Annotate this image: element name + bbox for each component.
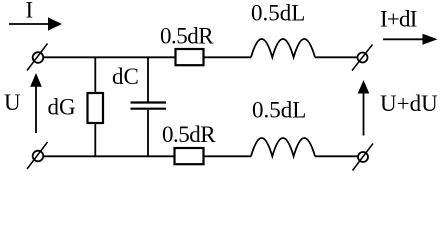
svg-text:0.5dL: 0.5dL: [252, 98, 306, 123]
resistor 0.5dR (bottom): [175, 148, 204, 164]
svg-text:dC: dC: [112, 64, 139, 89]
svg-text:dG: dG: [48, 95, 76, 120]
terminal top-left: [27, 44, 48, 71]
wire dG lower lead: [94, 123, 96, 156]
svg-text:0.5dL: 0.5dL: [251, 1, 305, 26]
wire top-right segment: [315, 56, 358, 58]
svg-text:I+dI: I+dI: [380, 6, 417, 31]
resistor dG: [88, 93, 104, 123]
current arrow I: [9, 17, 62, 30]
wire capacitor lower lead: [147, 110, 149, 157]
voltage arrow U+dU: [358, 80, 370, 136]
terminal bottom-right: [353, 144, 374, 171]
wire bottom-right segment: [315, 155, 358, 157]
svg-text:0.5dR: 0.5dR: [160, 23, 214, 48]
inductor 0.5dL (top): [251, 39, 315, 57]
voltage arrow U: [30, 73, 42, 133]
inductor 0.5dL (bottom): [251, 138, 315, 156]
terminal top-right: [352, 45, 373, 71]
svg-text:0.5dR: 0.5dR: [162, 122, 216, 147]
wire bottom-middle segment: [204, 155, 252, 157]
wire top-left segment: [43, 56, 175, 58]
current arrow I+dI: [383, 34, 438, 45]
svg-text:I: I: [26, 0, 34, 23]
svg-text:U: U: [4, 90, 21, 115]
wire dG upper lead: [94, 57, 96, 93]
wire top-middle segment: [204, 56, 252, 58]
terminal bottom-left: [27, 142, 48, 169]
wire capacitor upper lead: [147, 57, 149, 101]
resistor 0.5dR (top): [176, 49, 204, 65]
capacitor dC: [131, 103, 167, 109]
wire bottom-left segment: [43, 155, 174, 157]
svg-text:U+dU: U+dU: [380, 91, 438, 116]
